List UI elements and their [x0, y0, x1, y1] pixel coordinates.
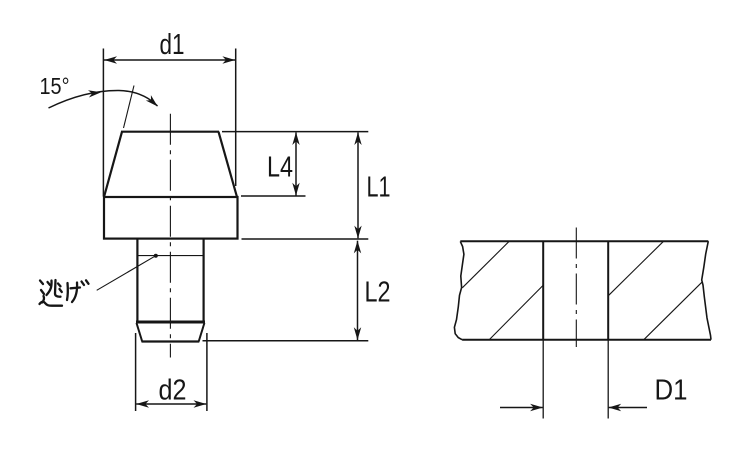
taper extension line: [124, 86, 135, 129]
pin head top edge: [121, 131, 219, 133]
svg-text:L1: L1: [367, 172, 391, 204]
hatch line A: [462, 241, 509, 287]
dimension d2 right extension line: [206, 333, 208, 411]
dimension L1 top arrowhead: [354, 132, 361, 145]
dimension L2 bottom arrowhead: [354, 327, 361, 340]
hole right extension line below plate: [607, 340, 609, 419]
top extension line for L4 and L1: [222, 131, 368, 133]
hatch line C: [608, 241, 663, 295]
angle arc end arrowhead: [146, 95, 158, 106]
dimension d1 right extension line: [235, 49, 237, 187]
dimension d1 right arrowhead: [222, 56, 235, 63]
svg-text:L2: L2: [365, 277, 391, 309]
dimension D1 right arrowhead: [608, 404, 621, 411]
dimension L4 line: [295, 133, 297, 196]
dimension L2 line: [357, 241, 359, 340]
dimension L4 bottom arrowhead: [292, 183, 299, 196]
dimension d1 left extension line: [102, 49, 104, 197]
relief leader dot: [154, 254, 158, 258]
dimension D1 right leader segment: [609, 407, 647, 409]
pin head right taper side: [219, 132, 238, 197]
hole left edge line: [542, 241, 544, 339]
svg-text:L4: L4: [267, 152, 293, 184]
svg-text:d1: d1: [160, 29, 185, 61]
angle dimension arc: [49, 90, 158, 108]
dimension d2 line: [136, 403, 206, 405]
dimension d1 left arrowhead: [104, 56, 117, 63]
dimension d2 left extension line: [135, 333, 137, 411]
dimension L2 top arrowhead: [354, 241, 361, 254]
pin shank right side: [203, 239, 205, 322]
pin shank left side: [136, 239, 138, 322]
plate bottom edge: [462, 339, 711, 341]
chamfer shoulder thick line: [136, 321, 205, 324]
dimension L1 bottom arrowhead: [354, 226, 361, 239]
dimension d2 left arrowhead: [136, 400, 149, 407]
hole left extension line below plate: [542, 340, 544, 419]
dimension L1 bottom extension line: [242, 238, 369, 240]
pin center line: [169, 114, 171, 358]
hatch line B: [489, 285, 543, 339]
svg-text:15°: 15°: [40, 73, 70, 99]
pin flange rectangle: [104, 197, 238, 239]
relief groove line: [137, 255, 203, 257]
dimension L4 top arrowhead: [292, 132, 299, 145]
dimension D1 left leader segment: [500, 407, 543, 409]
hole right edge line: [607, 241, 609, 339]
dimension D1 left arrowhead: [530, 404, 543, 411]
hatch line D: [644, 282, 702, 339]
svg-text:d2: d2: [159, 375, 187, 407]
plate right break line: [702, 241, 711, 340]
chamfer left slant: [137, 323, 143, 342]
pin bottom edge: [142, 340, 200, 342]
dimension L2 bottom extension line: [203, 340, 369, 342]
plate top edge: [460, 240, 708, 242]
hole center line: [575, 228, 577, 348]
nigage (relief) label: [40, 280, 89, 306]
chamfer right slant: [199, 323, 205, 342]
relief leader line: [97, 256, 156, 291]
dimension L1 line: [357, 133, 359, 239]
pin head left taper side: [104, 132, 122, 197]
dimension L4 bottom extension line: [241, 195, 306, 197]
svg-text:D1: D1: [655, 375, 688, 407]
plate left break line: [454, 241, 464, 339]
angle arc arrowhead at extension line: [88, 90, 101, 97]
dimension d1 line: [104, 59, 235, 61]
dimension d2 right arrowhead: [194, 400, 207, 407]
